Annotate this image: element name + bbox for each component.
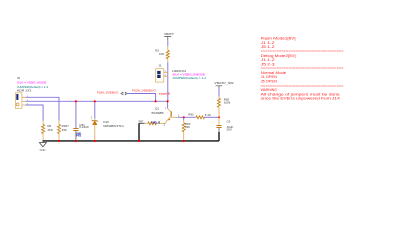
svg-text:C9: C9 bbox=[227, 120, 231, 124]
svg-text:15K: 15K bbox=[47, 128, 52, 132]
svg-text:VBATP_SW: VBATP_SW bbox=[214, 81, 234, 85]
connector J1 HDR1X2 bbox=[156, 63, 168, 82]
svg-text:J1: J1 bbox=[158, 63, 162, 67]
resistor R93 bbox=[182, 117, 191, 141]
wire J5 pin3 to R6 bbox=[26, 105, 43, 121]
svg-text:25V: 25V bbox=[227, 128, 232, 132]
svg-text:R87: R87 bbox=[139, 120, 144, 124]
resistor R65 bbox=[218, 97, 231, 118]
junction C81/bus bbox=[75, 100, 77, 102]
svg-text:33K: 33K bbox=[185, 125, 190, 129]
resistor R87 bbox=[139, 120, 166, 127]
junction D16/gnd bbox=[94, 140, 96, 142]
wire off-page to bus bbox=[128, 94, 156, 102]
svg-text:page[3]: page[3] bbox=[159, 92, 170, 96]
svg-text:Q1: Q1 bbox=[155, 106, 159, 110]
junction off-page/bus bbox=[155, 100, 157, 102]
resistor R297 bbox=[58, 121, 70, 141]
svg-text:5.1K: 5.1K bbox=[205, 113, 211, 117]
svg-text:BC848B: BC848B bbox=[152, 111, 164, 115]
svg-text:0402: 0402 bbox=[76, 135, 82, 138]
svg-text:10K: 10K bbox=[159, 52, 164, 56]
junction R297/gnd bbox=[58, 140, 60, 142]
junction node R65/C9 bbox=[218, 116, 220, 118]
capacitor C81 bbox=[73, 101, 89, 140]
svg-text:F526_VDEBUG: F526_VDEBUG bbox=[97, 91, 119, 95]
wire J5 pin1 to R297 bbox=[26, 97, 59, 120]
wire R92 to node bbox=[204, 116, 219, 118]
junction C81/gnd bbox=[75, 140, 77, 142]
wire VBATP_SW to R65 bbox=[218, 89, 220, 97]
svg-text:once the EVB is unpowered from: once the EVB is unpowered from J14 bbox=[261, 97, 340, 101]
svg-text:JUMPER(Default) = 1-2: JUMPER(Default) = 1-2 bbox=[172, 76, 206, 80]
svg-text:GND: GND bbox=[40, 148, 46, 152]
junction riser/gnd bbox=[138, 140, 140, 142]
svg-text:VBATP: VBATP bbox=[164, 32, 174, 36]
junction D16/bus bbox=[94, 100, 96, 102]
wire Q1 base to divider bbox=[177, 116, 196, 118]
zener diode D16 bbox=[91, 101, 125, 140]
wire R2 to J1 pin1 bbox=[167, 63, 169, 102]
junction R93/gnd bbox=[183, 140, 185, 142]
svg-text:0.22UF: 0.22UF bbox=[79, 125, 89, 129]
ground symbol GND bbox=[39, 141, 46, 152]
resistor R6 bbox=[42, 121, 53, 141]
wire VBATP to R2 bbox=[167, 40, 169, 46]
gnd riser to R87 bbox=[138, 123, 140, 141]
svg-text:33K: 33K bbox=[62, 128, 67, 132]
off-page connector symbol bbox=[121, 92, 128, 95]
notes text block bbox=[261, 37, 344, 101]
connector J5 HDR 1X3 bbox=[15, 76, 48, 108]
gnd riser to C9 bbox=[218, 132, 220, 141]
resistor R92 bbox=[188, 113, 211, 119]
ground bus bbox=[43, 140, 220, 142]
svg-text:SILK = VDBG_MODE: SILK = VDBG_MODE bbox=[17, 81, 46, 85]
wire J5 pin2 bus F526_VDEBUG bbox=[26, 100, 168, 102]
power symbol VBATP bbox=[164, 32, 174, 40]
junction J1 pin2/bus bbox=[167, 100, 169, 102]
wire bus to Q1 collector bbox=[167, 101, 169, 108]
resistor R2 bbox=[155, 46, 169, 62]
svg-text:R92: R92 bbox=[188, 113, 194, 117]
capacitor C9 bbox=[216, 117, 233, 132]
svg-text:F526_VDEBUG: F526_VDEBUG bbox=[132, 88, 157, 92]
power symbol VBATP_SW bbox=[214, 81, 234, 88]
junction base/R93 bbox=[183, 116, 185, 118]
svg-text:100k: 100k bbox=[224, 101, 231, 105]
svg-text:HDR 1X3: HDR 1X3 bbox=[17, 89, 32, 93]
transistor Q1 BC848B bbox=[152, 106, 178, 123]
svg-text:MMSZB6V2T1G: MMSZB6V2T1G bbox=[103, 124, 124, 128]
